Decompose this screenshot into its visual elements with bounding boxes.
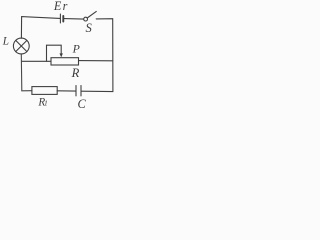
svg-text:S: S bbox=[86, 21, 93, 35]
svg-text:1: 1 bbox=[44, 99, 48, 108]
svg-text:R: R bbox=[71, 66, 80, 80]
svg-text:P: P bbox=[72, 42, 80, 56]
svg-text:L: L bbox=[2, 36, 9, 48]
svg-text:r: r bbox=[63, 0, 68, 13]
svg-text:E: E bbox=[53, 0, 62, 13]
svg-text:C: C bbox=[78, 97, 87, 109]
